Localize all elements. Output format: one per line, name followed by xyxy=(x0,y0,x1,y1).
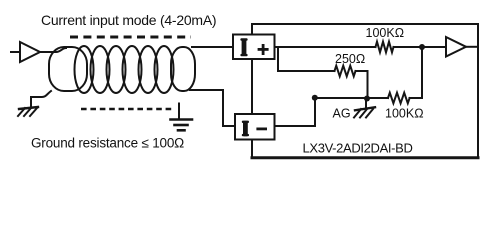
svg-text:LX3V-2ADI2DAI-BD: LX3V-2ADI2DAI-BD xyxy=(303,140,413,155)
svg-text:100KΩ: 100KΩ xyxy=(366,26,405,40)
svg-text:Current input mode (4-20mA): Current input mode (4-20mA) xyxy=(41,12,216,28)
svg-text:100KΩ: 100KΩ xyxy=(385,106,424,120)
svg-text:AG: AG xyxy=(333,106,351,120)
svg-text:250Ω: 250Ω xyxy=(335,52,365,66)
svg-text:Ground resistance ≤ 100Ω: Ground resistance ≤ 100Ω xyxy=(31,135,184,150)
